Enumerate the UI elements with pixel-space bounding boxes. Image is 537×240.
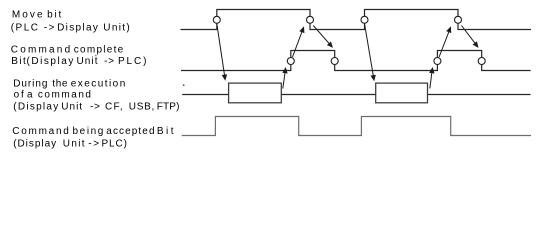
svg-text:Commandcomplete: Commandcomplete <box>11 45 125 56</box>
svg-text:(PLC ->Display Unit): (PLC ->Display Unit) <box>11 23 131 34</box>
svg-text:Duringtheexecution: Duringtheexecution <box>13 79 127 90</box>
svg-text:ofacommand: ofacommand <box>14 89 93 100</box>
svg-text:Bit(DisplayUnit->PLC): Bit(DisplayUnit->PLC) <box>11 56 148 67</box>
svg-text:Movebit: Movebit <box>12 10 63 21</box>
svg-text:CommandbeingacceptedBit: CommandbeingacceptedBit <box>12 126 176 137</box>
svg-text:(DisplayUnit->CF,USB,FTP): (DisplayUnit->CF,USB,FTP) <box>13 101 179 112</box>
svg-text:(DisplayUnit->PLC): (DisplayUnit->PLC) <box>13 138 128 149</box>
